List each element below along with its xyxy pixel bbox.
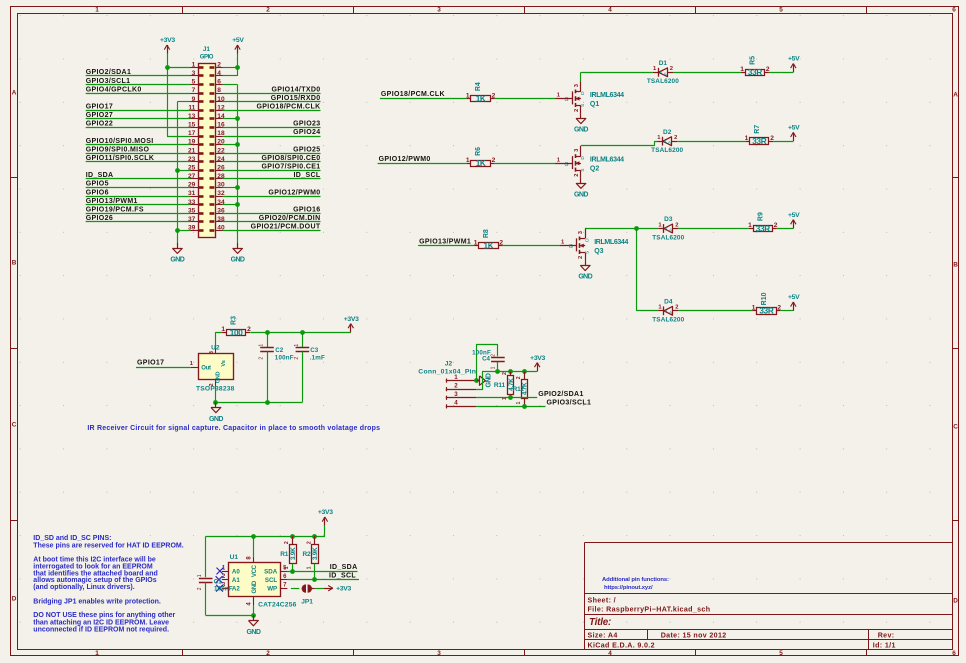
transistor Q2 IRLML6344 (555, 146, 624, 178)
resistor R6 1K (466, 147, 496, 168)
ground U1 (247, 615, 261, 636)
wire GPIO26 to J1 pin 37 (86, 221, 191, 223)
svg-text:TSAL6200: TSAL6200 (652, 234, 684, 241)
svg-text:TSAL6200: TSAL6200 (651, 147, 683, 154)
svg-text:unconnected if ID EEPROM not r: unconnected if ID EEPROM not required. (33, 626, 169, 633)
svg-text:1: 1 (284, 566, 290, 569)
svg-text:4: 4 (217, 70, 221, 77)
resistor R7 33R (745, 125, 775, 146)
connector J2 Conn_01x04_Pin (418, 361, 476, 409)
svg-text:G: G (569, 244, 573, 250)
jumper JP1 (301, 584, 315, 605)
svg-text:GND: GND (574, 127, 588, 134)
ground Q3 (578, 260, 592, 281)
svg-text:+3V3: +3V3 (336, 586, 351, 593)
svg-text:33R: 33R (759, 307, 773, 316)
svg-text:+3V3: +3V3 (530, 355, 545, 362)
wire R8 to Q3 gate (503, 245, 560, 247)
capacitor C1 100nF (197, 574, 233, 615)
junction VCC (251, 534, 256, 539)
svg-text:Q2: Q2 (590, 166, 599, 173)
resistor R5 33R (740, 56, 770, 77)
svg-text:JP1: JP1 (301, 598, 313, 605)
wire GPIO18 to R4 (380, 98, 467, 100)
resistor R2 3.9K (303, 536, 320, 569)
svg-text:1K: 1K (476, 159, 486, 168)
svg-text:+5V: +5V (788, 125, 800, 132)
svg-text:+3V3: +3V3 (318, 509, 333, 516)
junction R11 bottom (508, 395, 513, 400)
svg-text:9: 9 (192, 96, 196, 103)
svg-text:Title:: Title: (589, 617, 611, 628)
svg-text:R6: R6 (475, 147, 482, 156)
svg-text:2: 2 (491, 354, 497, 357)
svg-text:1: 1 (748, 222, 752, 229)
svg-text:R12: R12 (513, 386, 525, 393)
svg-text:A: A (953, 92, 958, 99)
svg-text:GPIO13/PWM1: GPIO13/PWM1 (86, 198, 138, 205)
resistor R3 100 (221, 316, 251, 337)
svg-text:GPIO14/TXD0: GPIO14/TXD0 (272, 86, 321, 93)
svg-text:5: 5 (779, 7, 783, 14)
svg-text:Sheet: /: Sheet: / (588, 596, 616, 604)
junction R1 top (290, 534, 295, 539)
svg-text:GPIO27: GPIO27 (86, 112, 113, 119)
svg-text:2: 2 (284, 541, 290, 544)
svg-text:2: 2 (259, 357, 265, 360)
wire D3 to R9 (678, 228, 748, 230)
wire GPIO12 to R6 (378, 163, 467, 165)
svg-text:33R: 33R (756, 224, 770, 233)
svg-text:2: 2 (578, 256, 584, 259)
no-connect U1 A0 (217, 568, 224, 575)
svg-text:GPIO17: GPIO17 (137, 360, 164, 367)
svg-text:S: S (580, 104, 586, 107)
svg-text:4: 4 (608, 650, 612, 657)
diode D4 TSAL6200 (652, 299, 684, 324)
resistor R8 1K (474, 229, 504, 250)
svg-text:GPIO16: GPIO16 (293, 207, 320, 214)
junction U2 GND (213, 400, 218, 405)
svg-text:GPIO7/SPI0.CE1: GPIO7/SPI0.CE1 (262, 164, 321, 171)
svg-text:https://pinout.xyz/: https://pinout.xyz/ (604, 585, 653, 591)
svg-text:Date: 15 nov 2012: Date: 15 nov 2012 (661, 632, 727, 640)
diode D3 TSAL6200 (652, 216, 684, 241)
svg-text:GPIO22: GPIO22 (86, 121, 113, 128)
svg-text:GPIO12/PWM0: GPIO12/PWM0 (379, 156, 431, 163)
svg-text:ID_SCL: ID_SCL (294, 172, 321, 179)
svg-text:D1: D1 (659, 60, 668, 67)
wire WP to JP1 (291, 588, 299, 590)
wire R7 to +5V (773, 141, 793, 143)
wire GPIO11/SPI0.SCLK to J1 pin 23 (86, 161, 191, 163)
svg-text:.1mF: .1mF (310, 355, 325, 362)
svg-text:GPIO3/SCL1: GPIO3/SCL1 (547, 400, 592, 407)
svg-text:1: 1 (745, 135, 749, 142)
svg-text:6: 6 (952, 7, 956, 14)
svg-text:D: D (953, 598, 958, 605)
svg-text:33R: 33R (748, 68, 762, 77)
wire J2 pin3 SDA (476, 397, 537, 399)
wire J1 pin 16 to GPIO23 (223, 127, 321, 129)
svg-text:5: 5 (779, 650, 783, 657)
wire J2 pin2 to +3V3 rail (476, 372, 537, 390)
wire Q3 drain rail (585, 227, 658, 230)
svg-text:6: 6 (952, 650, 956, 657)
svg-text:GPIO19/PCM.FS: GPIO19/PCM.FS (86, 207, 144, 214)
svg-text:GPIO18/PCM.CLK: GPIO18/PCM.CLK (381, 91, 445, 98)
wire Q2 drain to D2 (581, 142, 658, 146)
power +3V3 eeprom (318, 509, 333, 536)
wire R5 to +5V (769, 72, 793, 74)
junction GND pin14 (235, 116, 240, 121)
svg-text:D3: D3 (664, 216, 673, 223)
svg-text:Conn_01x04_Pin: Conn_01x04_Pin (418, 369, 476, 376)
no-connect U1 A1 (216, 576, 223, 583)
svg-text:B: B (12, 259, 17, 266)
svg-text:Out: Out (201, 366, 211, 372)
svg-text:GND: GND (247, 629, 261, 636)
svg-text:3.9K: 3.9K (290, 547, 297, 560)
wire GPIO17 to J1 pin 11 (86, 110, 191, 112)
wire eeprom ground rail (206, 605, 254, 615)
wire +3V3 to J1 pin 1 (167, 67, 191, 69)
svg-text:GND: GND (231, 257, 245, 264)
svg-text:1: 1 (491, 366, 497, 369)
svg-text:C3: C3 (310, 347, 318, 354)
svg-text:4: 4 (608, 7, 612, 14)
svg-text:7: 7 (192, 87, 196, 94)
svg-text:D: D (580, 91, 586, 95)
svg-text:1: 1 (221, 326, 225, 333)
svg-text:SCL: SCL (265, 577, 278, 584)
svg-text:3: 3 (192, 70, 196, 77)
svg-text:GPIO15/RXD0: GPIO15/RXD0 (271, 95, 321, 102)
junction R12 top (522, 369, 527, 374)
svg-text:R4: R4 (475, 82, 482, 91)
svg-text:GPIO25: GPIO25 (293, 146, 320, 153)
svg-text:+5V: +5V (788, 294, 800, 301)
ground J2 (477, 373, 493, 387)
svg-text:GPIO10/SPI0.MOSI: GPIO10/SPI0.MOSI (86, 138, 154, 145)
svg-text:2: 2 (670, 66, 673, 72)
wire GND bus left (J1 pins 9,25,39) (177, 102, 190, 244)
transistor Q1 IRLML6344 (555, 81, 624, 113)
svg-text:GPIO18/PCM.CLK: GPIO18/PCM.CLK (256, 104, 320, 111)
svg-text:GPIO2/SDA1: GPIO2/SDA1 (86, 69, 132, 76)
wire D2 to R7 (677, 141, 745, 143)
svg-text:GPIO8/SPI0.CE0: GPIO8/SPI0.CE0 (262, 155, 321, 162)
wire GPIO13 to R8 (418, 245, 474, 247)
svg-text:GPIO24: GPIO24 (293, 129, 320, 136)
svg-text:VCC: VCC (252, 564, 258, 577)
svg-text:IRLML6344: IRLML6344 (590, 92, 624, 99)
ground J1 left (170, 243, 184, 264)
connector J1 GPIO 2x20 header (188, 46, 225, 238)
svg-text:D: D (12, 595, 17, 602)
wire J2 pin1 to C4 (477, 345, 498, 381)
power +5V row1 (788, 56, 800, 73)
svg-text:+5V: +5V (788, 56, 800, 63)
svg-text:1K: 1K (476, 95, 486, 104)
svg-text:ID_SCL: ID_SCL (329, 573, 356, 580)
svg-text:J1: J1 (203, 46, 211, 53)
power +5V J1 (232, 37, 244, 67)
svg-text:GPIO12/PWM0: GPIO12/PWM0 (268, 189, 320, 196)
wire Q1 drain to D1 (581, 72, 653, 81)
svg-text:GPIO23: GPIO23 (293, 121, 320, 128)
svg-text:A2: A2 (232, 586, 240, 593)
wire GPIO3/SCL1 to J1 pin 5 (86, 84, 191, 86)
svg-text:GPIO4/GPCLK0: GPIO4/GPCLK0 (86, 86, 142, 93)
svg-text:GPIO11/SPI0.SCLK: GPIO11/SPI0.SCLK (86, 155, 155, 162)
svg-text:+3V3: +3V3 (344, 316, 359, 323)
wire VCC drop (253, 536, 255, 557)
svg-text:A: A (12, 89, 17, 96)
svg-text:4: 4 (454, 400, 458, 407)
junction C3 top (300, 330, 305, 335)
svg-text:R7: R7 (754, 125, 761, 134)
junction GND pin39 (175, 228, 180, 233)
wire C4 to +3V3 rail (497, 362, 499, 372)
svg-text:U1: U1 (230, 554, 239, 561)
svg-text:1K: 1K (484, 242, 494, 251)
wire R10 to +5V (780, 310, 793, 312)
svg-text:5: 5 (192, 79, 196, 86)
svg-text:(and optionally, Linux drivers: (and optionally, Linux drivers). (33, 584, 134, 591)
wire IR ground rail (216, 386, 303, 403)
svg-text:KiCad E.D.A. 9.0.2: KiCad E.D.A. 9.0.2 (588, 642, 655, 650)
junction U1 GND (251, 613, 256, 618)
svg-text:1: 1 (95, 7, 99, 14)
svg-text:Vs: Vs (221, 360, 227, 366)
wire J1 pin 26 to GPIO7/SPI0.CE1 (223, 170, 321, 172)
svg-text:D4: D4 (664, 299, 673, 306)
svg-text:GPIO20/PCM.DIN: GPIO20/PCM.DIN (259, 215, 321, 222)
wire J1 pin 32 to GPIO12/PWM0 (223, 196, 321, 198)
svg-text:1: 1 (259, 344, 265, 347)
svg-text:D: D (580, 156, 586, 160)
capacitor C3 .1mF (294, 332, 325, 402)
wire J1 pin 10 to GPIO15/RXD0 (223, 101, 321, 103)
junction J2 pin1 (474, 378, 479, 383)
svg-text:ID_SDA: ID_SDA (86, 172, 114, 179)
no-connect U1 A2 (216, 585, 223, 592)
wire J1 pin 40 to GPIO21/PCM.DOUT (223, 230, 321, 232)
svg-text:1: 1 (192, 62, 196, 69)
svg-text:6: 6 (217, 79, 221, 86)
svg-text:R11: R11 (494, 382, 506, 389)
wire J1 pin 28 to ID_SCL (223, 178, 321, 180)
power +5V row4 (788, 294, 800, 311)
wire J2 pin4 SCL (476, 406, 545, 408)
svg-text:+3V3: +3V3 (160, 37, 175, 44)
diode D2 TSAL6200 (651, 129, 683, 154)
svg-text:GPIO17: GPIO17 (86, 104, 113, 111)
svg-text:100: 100 (230, 328, 243, 337)
ground Q1 (574, 113, 588, 134)
svg-text:2: 2 (674, 135, 677, 141)
resistor R9 33R (748, 212, 778, 233)
svg-text:CAT24C256: CAT24C256 (258, 601, 297, 608)
svg-text:33R: 33R (752, 137, 766, 146)
svg-text:IR Receiver Circuit for signal: IR Receiver Circuit for signal capture. … (87, 425, 380, 432)
svg-text:GND: GND (209, 416, 223, 423)
svg-text:Bridging JP1 enables write pro: Bridging JP1 enables write protection. (33, 598, 161, 605)
svg-text:Additional pin functions:: Additional pin functions: (602, 577, 669, 583)
svg-text:GPIO: GPIO (200, 54, 214, 60)
wire GPIO19/PCM.FS to J1 pin 35 (86, 213, 191, 215)
ground J1 right (231, 243, 245, 264)
svg-text:ID_SDA: ID_SDA (330, 564, 358, 571)
wire J1 pin 24 to GPIO8/SPI0.CE0 (223, 161, 321, 163)
svg-text:B: B (953, 262, 958, 269)
svg-text:2: 2 (217, 62, 221, 69)
power +3V3 JP1 (324, 586, 351, 593)
svg-text:Size: A4: Size: A4 (588, 632, 618, 640)
svg-text:Rev:: Rev: (878, 632, 895, 640)
svg-text:Q3: Q3 (594, 248, 603, 255)
svg-text:DO NOT USE these pins for anyt: DO NOT USE these pins for anything other (33, 612, 175, 619)
svg-text:TSAL6200: TSAL6200 (652, 317, 684, 324)
svg-text:1: 1 (454, 374, 458, 381)
svg-text:A1: A1 (232, 577, 240, 584)
svg-text:TSAL6200: TSAL6200 (647, 78, 679, 85)
junction C2 bottom (265, 400, 270, 405)
junction R2 top (312, 534, 317, 539)
capacitor C2 100nF (259, 332, 294, 402)
wire SDA to ID_SDA (287, 571, 357, 573)
svg-text:1: 1 (466, 157, 470, 164)
resistor R1 3.9K (280, 536, 297, 569)
junction D3/D4 branch (634, 226, 639, 231)
svg-text:GPIO5: GPIO5 (86, 181, 109, 188)
wire R3 to +3V3 rail (250, 332, 351, 334)
wire GPIO10/SPI0.MOSI to J1 pin 19 (86, 144, 191, 146)
ground Q2 (574, 178, 588, 199)
svg-text:Q1: Q1 (590, 101, 599, 108)
power +3V3 J2 (530, 355, 545, 372)
svg-text:R9: R9 (757, 212, 764, 221)
svg-text:J2: J2 (445, 361, 453, 368)
svg-text:GPIO3/SCL1: GPIO3/SCL1 (86, 78, 131, 85)
wire +3V3 to J1 pins 1 and 17 (167, 67, 191, 136)
wire J1 pin 18 to GPIO24 (223, 136, 321, 138)
resistor R4 1K (466, 82, 496, 103)
svg-text:GND: GND (216, 371, 222, 383)
svg-text:File: RaspberryPi−HAT.kicad_sc: File: RaspberryPi−HAT.kicad_sch (588, 605, 711, 613)
svg-text:GPIO6: GPIO6 (86, 189, 109, 196)
svg-text:+5V: +5V (232, 37, 244, 44)
svg-text:These pins are reserved for HA: These pins are reserved for HAT ID EEPRO… (33, 543, 183, 550)
svg-text:2: 2 (574, 173, 580, 176)
capacitor C4 100nF (472, 350, 505, 363)
ground U2 (209, 402, 223, 423)
svg-text:D2: D2 (663, 129, 672, 136)
svg-text:1: 1 (466, 92, 470, 99)
svg-text:G: G (564, 97, 568, 103)
svg-text:ID_SD and ID_SC PINS:: ID_SD and ID_SC PINS: (33, 535, 111, 542)
svg-text:2: 2 (266, 7, 270, 14)
svg-text:C: C (953, 424, 958, 431)
wire ID_SDA to J1 pin 27 (86, 178, 191, 180)
wire GND bus right (J1 pins 6,14,20,30,34) (223, 85, 238, 244)
svg-text:2: 2 (516, 376, 522, 379)
svg-text:3: 3 (437, 650, 441, 657)
resistor R11 4.7K (494, 371, 515, 400)
svg-text:GND: GND (574, 191, 588, 198)
junction +5V pin2 (235, 65, 240, 70)
svg-text:WP: WP (267, 586, 277, 593)
wire JP1 to +3V3 (315, 588, 325, 590)
svg-text:D: D (584, 238, 590, 242)
svg-text:R2: R2 (303, 551, 311, 558)
svg-text:G: G (564, 162, 568, 168)
svg-text:2: 2 (675, 305, 678, 311)
svg-text:GND: GND (252, 580, 258, 593)
svg-text:GPIO9/SPI0.MISO: GPIO9/SPI0.MISO (86, 146, 150, 153)
svg-text:1: 1 (516, 401, 522, 404)
svg-text:R10: R10 (761, 292, 768, 305)
power +5V row2 (788, 125, 800, 142)
svg-text:GND: GND (486, 373, 493, 387)
svg-text:2: 2 (770, 135, 774, 142)
svg-text:SDA: SDA (264, 568, 278, 575)
wire R6 to Q2 gate (495, 163, 556, 165)
svg-text:C4: C4 (482, 356, 490, 363)
svg-text:R1: R1 (280, 551, 288, 558)
diode D1 TSAL6200 (647, 60, 679, 85)
wire GPIO6 to J1 pin 31 (86, 196, 191, 198)
svg-text:GPIO26: GPIO26 (86, 215, 113, 222)
wire D4 to R10 (678, 310, 752, 312)
svg-text:1: 1 (752, 305, 756, 312)
svg-text:1: 1 (474, 239, 478, 246)
wire J1 pin 12 to GPIO18/PCM.CLK (223, 110, 321, 112)
svg-text:A0: A0 (232, 568, 240, 575)
svg-text:2: 2 (266, 650, 270, 657)
svg-text:GND: GND (578, 274, 592, 281)
title block (585, 543, 953, 650)
svg-text:S: S (580, 168, 586, 171)
IR receiver U2 TSOP38238 (190, 345, 235, 393)
wire SCL to ID_SCL (287, 579, 359, 581)
wire GPIO22 to J1 pin 15 (86, 127, 191, 129)
svg-text:+5V: +5V (788, 212, 800, 219)
wire R9 to +5V (777, 228, 794, 230)
wire +3V3 top rail eeprom (206, 536, 325, 577)
wire U2 Vs to R3 (216, 333, 223, 349)
svg-text:1: 1 (306, 566, 312, 569)
svg-text:2: 2 (574, 109, 580, 112)
svg-text:2: 2 (454, 383, 458, 390)
svg-text:IRLML6344: IRLML6344 (590, 157, 624, 164)
wire +5V to J1 pins 2 and 4 (223, 67, 238, 76)
svg-text:100nF: 100nF (275, 355, 294, 362)
power +3V3 IR (344, 316, 359, 333)
svg-text:GPIO21/PCM.DOUT: GPIO21/PCM.DOUT (251, 224, 321, 231)
svg-text:2: 2 (675, 222, 678, 228)
svg-text:GPIO13/PWM1: GPIO13/PWM1 (419, 238, 471, 245)
svg-text:C: C (12, 421, 17, 428)
junction C4 bottom (495, 369, 500, 374)
resistor R12 4.7K (513, 371, 529, 406)
junction GND pin20 (235, 142, 240, 147)
junction R2 bottom (312, 577, 317, 582)
junction GND pin30 (235, 185, 240, 190)
wire GPIO27 to J1 pin 13 (86, 118, 191, 120)
svg-text:1: 1 (294, 344, 300, 347)
